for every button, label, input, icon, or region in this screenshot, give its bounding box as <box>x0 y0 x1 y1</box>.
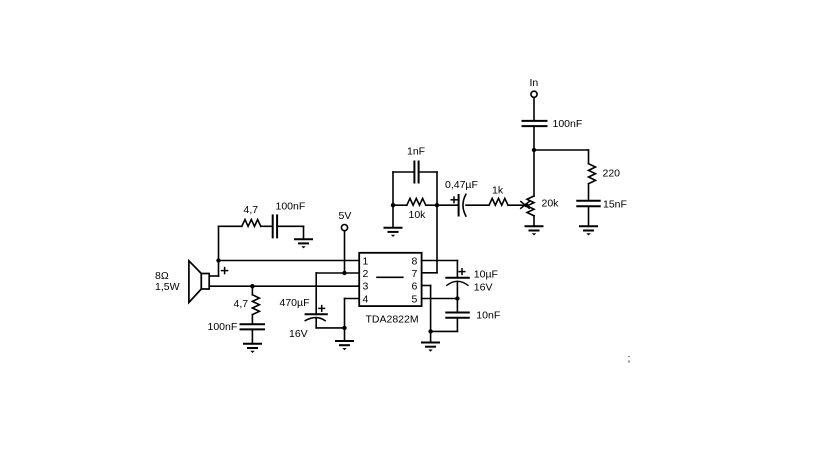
svg-text:In: In <box>530 77 539 89</box>
resistor R 4,7 (snubber) <box>242 220 261 227</box>
svg-text:10µF: 10µF <box>474 268 498 280</box>
node A junction <box>532 148 536 152</box>
wire node A down to pot <box>533 150 535 196</box>
capacitor 470uF electrolytic <box>315 273 317 314</box>
wire snubber riser <box>218 226 220 260</box>
svg-text:5V: 5V <box>339 210 352 222</box>
wire pin 4 down <box>344 299 346 328</box>
wire pin 1 <box>219 260 360 262</box>
svg-text:8Ω: 8Ω <box>155 270 169 282</box>
svg-text:100nF: 100nF <box>276 201 306 213</box>
svg-text:7: 7 <box>412 268 418 280</box>
svg-text:1nF: 1nF <box>407 146 425 158</box>
svg-text:1k: 1k <box>492 185 504 197</box>
node B junction (10k right) <box>435 203 439 207</box>
wire node A to R 220 <box>534 149 589 151</box>
svg-text:4,7: 4,7 <box>234 298 249 310</box>
wire pin 3 <box>209 285 359 287</box>
svg-text:15nF: 15nF <box>603 199 627 211</box>
wire 5V to pin 2 <box>344 231 346 273</box>
terminal In <box>531 91 537 97</box>
capacitor C1 100nF (input) <box>523 120 547 122</box>
svg-text:4: 4 <box>363 293 369 305</box>
capacitor 1nF feedback <box>392 172 394 205</box>
wire pin 5 <box>422 298 458 300</box>
resistor R 4,7 (zobel) <box>251 286 253 295</box>
node pin5 junction <box>455 296 459 300</box>
ground (pin4/470uF) <box>344 328 346 341</box>
wire wiper <box>508 204 526 206</box>
wire 10nF to pin6 ground <box>431 330 458 332</box>
wire In stem <box>533 98 535 120</box>
capacitor 10nF <box>456 299 458 313</box>
svg-text:100nF: 100nF <box>208 321 238 333</box>
svg-text:1: 1 <box>363 256 369 268</box>
node pin1/snubber junction <box>216 258 220 262</box>
svg-text:470µF: 470µF <box>280 297 310 309</box>
ground (pot) <box>526 225 543 227</box>
svg-text:8: 8 <box>412 256 418 268</box>
capacitor 100nF (zobel) <box>241 323 265 325</box>
wire pin 2 <box>316 272 359 274</box>
svg-text:10nF: 10nF <box>476 309 500 321</box>
svg-text:3: 3 <box>363 281 369 293</box>
capacitor 100nF (snubber) <box>261 225 272 227</box>
svg-text:1,5W: 1,5W <box>155 281 180 293</box>
potentiometer VR1 20k <box>527 196 534 216</box>
speaker LS1 <box>218 261 220 277</box>
wire pin 6 <box>422 285 431 287</box>
resistor R 1k <box>489 198 508 205</box>
capacitor 10uF electrolytic <box>456 261 458 278</box>
svg-text:16V: 16V <box>474 282 493 294</box>
svg-text:4,7: 4,7 <box>244 204 259 216</box>
op-amp U1 TDA2822M <box>359 253 421 306</box>
svg-text:10k: 10k <box>409 209 427 221</box>
ground (snubber) <box>303 226 305 239</box>
ground (zobel) <box>244 343 261 345</box>
svg-text:5: 5 <box>412 293 418 305</box>
wire C1 to node A <box>533 126 535 150</box>
wire node B to pin 7 <box>436 205 438 273</box>
svg-text:;: ; <box>628 353 631 365</box>
resistor R 220 <box>588 150 590 164</box>
svg-text:6: 6 <box>412 281 418 293</box>
resistor R 10k <box>393 204 407 206</box>
svg-text:16V: 16V <box>289 328 308 340</box>
svg-text:220: 220 <box>603 168 621 180</box>
svg-text:TDA2822M: TDA2822M <box>366 313 419 325</box>
wire pin 4 <box>345 298 360 300</box>
capacitor 15nF <box>577 200 599 202</box>
svg-text:20k: 20k <box>542 198 560 210</box>
speaker plus <box>222 270 228 272</box>
svg-text:2: 2 <box>363 268 369 280</box>
svg-text:0,47µF: 0,47µF <box>445 179 478 191</box>
node speaker/zobel junction <box>250 284 254 288</box>
wire pin 6 down <box>430 286 432 332</box>
ground (15nF) <box>580 225 597 227</box>
wire pin 8 <box>422 260 458 262</box>
wiper arrow <box>521 202 529 209</box>
svg-text:100nF: 100nF <box>553 118 583 130</box>
node C junction (10k left) <box>391 203 395 207</box>
ground (10k left) <box>392 205 394 228</box>
ground (pin6) <box>430 331 432 342</box>
